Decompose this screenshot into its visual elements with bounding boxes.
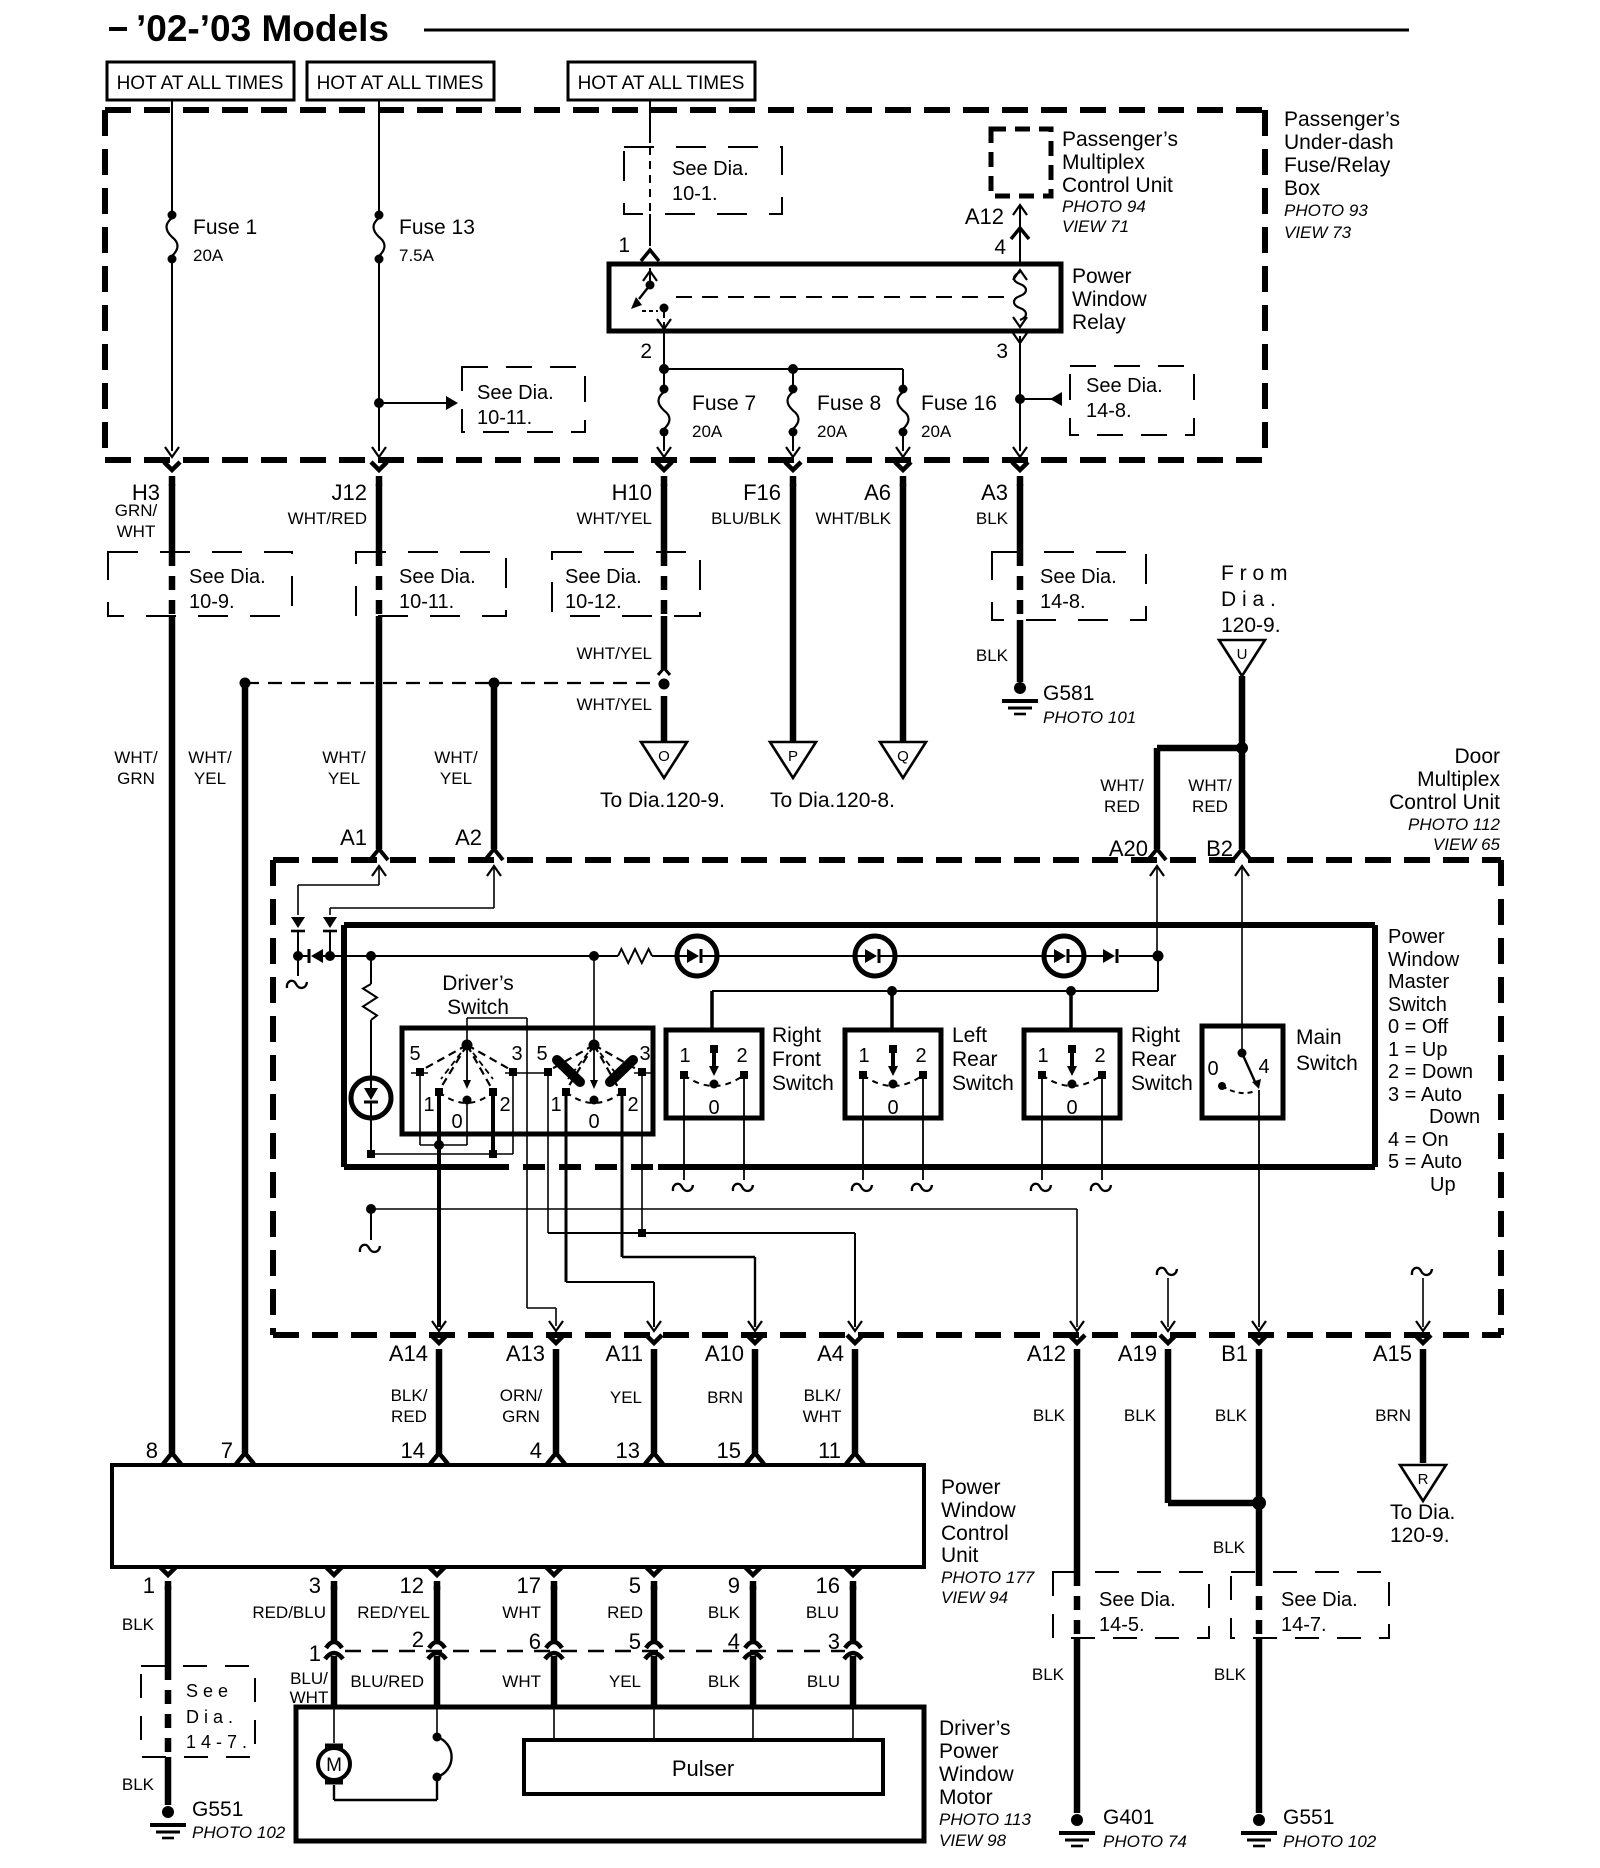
wire F7 to H10 (657, 436, 671, 457)
svg-text:Window: Window (1388, 949, 1460, 971)
relay A12 label (965, 204, 1004, 229)
inline connector 5 (645, 1586, 663, 1707)
LED2 (855, 936, 895, 976)
fuse F8 label (817, 392, 881, 441)
wire main switch to B1 (1258, 1090, 1260, 1327)
relay mid dashed line (676, 296, 1012, 298)
connector R triangle (1400, 1465, 1446, 1501)
see dia 10-12 box (552, 552, 700, 616)
see dia 14-7 box right (1231, 1572, 1389, 1638)
row2 pin label 2 (412, 1627, 424, 1652)
wire color WHT/RED B2 (1188, 776, 1232, 816)
svg-text:A1: A1 (340, 825, 367, 850)
control unit pin 5 (646, 1567, 662, 1590)
svg-text:G401: G401 (1103, 1806, 1154, 1829)
node line L2 to A4 (548, 1233, 855, 1327)
rotary1 contact 1 (435, 1088, 443, 1096)
svg-text:G551: G551 (1283, 1806, 1334, 1829)
fuse F1 label (193, 216, 257, 265)
svg-text:A4: A4 (817, 1341, 844, 1366)
svg-text:Left: Left (952, 1024, 987, 1047)
svg-text:GRN: GRN (502, 1407, 540, 1426)
rotary1 labels (409, 1043, 522, 1133)
main switch label (1296, 1026, 1358, 1075)
pulser box (524, 1740, 883, 1794)
svg-text:14-8.: 14-8. (1040, 591, 1086, 613)
svg-text:7.5A: 7.5A (399, 246, 435, 265)
rotary2 contact 0 (590, 1096, 599, 1105)
power window master switch box (344, 925, 1375, 1167)
svg-text:2: 2 (736, 1045, 747, 1067)
wire color WHT/YEL A1 (322, 748, 366, 788)
svg-text:Fuse 16: Fuse 16 (921, 392, 997, 415)
door multiplex control unit text (1389, 745, 1500, 854)
control unit pin 1 (160, 1567, 176, 1590)
A2 label (455, 825, 482, 850)
svg-text:14: 14 (401, 1438, 425, 1463)
wire R1 to node (370, 1118, 372, 1152)
svg-text:2: 2 (1094, 1045, 1105, 1067)
fuse F7 (659, 369, 670, 437)
main switch contact (1238, 1049, 1262, 1090)
pulser wires (554, 1707, 853, 1740)
rotary2 pivot (589, 1040, 600, 1051)
diode D2 (323, 917, 337, 931)
wire LED chain to switches (712, 956, 1158, 991)
rotary1 common link (420, 1144, 467, 1146)
title dash (109, 27, 127, 31)
svg-text:BLK: BLK (708, 1672, 741, 1691)
wire A12 lower (1074, 1638, 1081, 1813)
svg-text:P: P (788, 748, 798, 765)
wire H10 upper (661, 484, 668, 552)
G581 label (1043, 682, 1136, 727)
wire 13 to control unit (645, 1349, 663, 1464)
connector A15 (1373, 1321, 1431, 1366)
switch box RightRear (1024, 1030, 1120, 1118)
connector A10 (705, 1321, 763, 1366)
switch RightFront input contact (709, 1045, 719, 1089)
switch LeftRear wire 1 (852, 1079, 872, 1191)
power window relay box (609, 264, 1061, 331)
row2 pin label 6 (529, 1629, 541, 1654)
to dia 120-8 text (770, 789, 895, 812)
wire color YEL (610, 1388, 642, 1407)
diode D3 on bus (298, 949, 330, 963)
connector A6 (864, 462, 911, 505)
svg-text:RED: RED (1104, 797, 1140, 816)
switch RightRear wire 2 (1091, 1079, 1111, 1191)
junction A19-B1 (1252, 1496, 1266, 1510)
svg-text:Driver’s: Driver’s (939, 1717, 1011, 1740)
wire hot3 dashed through box (649, 147, 651, 246)
connector U triangle (1219, 640, 1265, 676)
control unit pin 12 (429, 1567, 445, 1590)
wire fuse1 to H3 (165, 263, 179, 457)
row2 dashed line (345, 1650, 845, 1652)
wire RR input (1069, 991, 1073, 1030)
svg-text:G581: G581 (1043, 682, 1094, 705)
wire B1 dashed (1256, 1572, 1263, 1638)
svg-text:F r o m: F r o m (1221, 562, 1288, 585)
ground G581 (1002, 682, 1038, 714)
rotary1 rays (422, 1045, 511, 1089)
pin label 12 bottom (400, 1573, 424, 1598)
svg-text:PHOTO 102: PHOTO 102 (192, 1823, 286, 1842)
connector B1 (1221, 1321, 1267, 1366)
wire color WHT/YEL H10 lower (576, 695, 652, 714)
main switch labels (1207, 1056, 1269, 1080)
svg-text:WHT/: WHT/ (114, 748, 158, 767)
main switch arc (1222, 1086, 1255, 1093)
svg-text:Passenger’s: Passenger’s (1062, 128, 1178, 151)
wire fuse13 feed (378, 100, 380, 211)
svg-text:YEL: YEL (609, 1672, 641, 1691)
svg-text:See Dia.: See Dia. (1040, 566, 1117, 588)
bus LED2-LED3 (895, 955, 1044, 957)
wire color BLU/BLK (F16) (711, 509, 782, 528)
svg-text:To Dia.120-9.: To Dia.120-9. (600, 789, 725, 812)
svg-text:BLK: BLK (976, 509, 1009, 528)
svg-text:11: 11 (818, 1438, 841, 1463)
svg-text:14-7.: 14-7. (1281, 1614, 1327, 1636)
svg-text:0: 0 (588, 1111, 599, 1133)
svg-text:13: 13 (616, 1438, 640, 1463)
junction dot col2 (240, 678, 251, 689)
svg-text:A11: A11 (605, 1341, 643, 1366)
power window relay text (1072, 265, 1148, 334)
svg-text:A12: A12 (965, 204, 1004, 229)
svg-text:BLU/RED: BLU/RED (350, 1672, 424, 1691)
svg-text:WHT: WHT (502, 1672, 541, 1691)
svg-text:10-9.: 10-9. (189, 591, 235, 613)
svg-text:1: 1 (143, 1573, 155, 1598)
wire color BLK B1 bottom (1214, 1665, 1247, 1684)
svg-text:F16: F16 (743, 480, 781, 505)
svg-text:See Dia.: See Dia. (672, 158, 749, 180)
connector A19 (1118, 1321, 1176, 1366)
svg-text:10-12.: 10-12. (565, 591, 622, 613)
wire RF input (710, 991, 714, 1030)
ground G401 (1059, 1814, 1095, 1846)
pin label 1 bottom (143, 1573, 155, 1598)
fuse F7 label (692, 392, 756, 441)
svg-text:BRN: BRN (707, 1388, 743, 1407)
wire color BLK B1 lower (1213, 1538, 1246, 1557)
wire color BLU pin16 (806, 1603, 839, 1622)
svg-text:5: 5 (629, 1629, 641, 1654)
driver's switch linkage (467, 1018, 556, 1326)
svg-text:A10: A10 (705, 1341, 744, 1366)
svg-text:Switch: Switch (447, 996, 509, 1019)
connector J12 (332, 462, 387, 505)
svg-text:BLK: BLK (122, 1775, 155, 1794)
svg-text:0: 0 (1066, 1097, 1077, 1119)
wire 15 to control unit (746, 1349, 764, 1464)
svg-text:PHOTO 113: PHOTO 113 (939, 1810, 1032, 1829)
switch LeftRear contact 1 (859, 1071, 867, 1079)
svg-text:Motor: Motor (939, 1786, 993, 1809)
svg-text:A14: A14 (389, 1341, 428, 1366)
svg-text:0: 0 (1207, 1058, 1218, 1080)
wire pin1 left (165, 1586, 172, 1666)
node dashed bus y683 (245, 682, 659, 684)
wire A3 to ground (1017, 620, 1024, 682)
svg-text:HOT AT ALL TIMES: HOT AT ALL TIMES (578, 73, 745, 94)
svg-text:5: 5 (536, 1043, 547, 1065)
pin label 7 (221, 1438, 233, 1463)
row2 pin label 1 (309, 1641, 321, 1666)
svg-text:3: 3 (996, 340, 1008, 363)
rotary1 contact 5 (416, 1068, 424, 1076)
svg-text:YEL: YEL (440, 769, 472, 788)
wire color YEL row2 (609, 1672, 641, 1691)
svg-text:BLU/BLK: BLU/BLK (711, 509, 782, 528)
svg-text:3: 3 (309, 1573, 321, 1598)
svg-text:0: 0 (887, 1097, 898, 1119)
svg-text:Fuse 1: Fuse 1 (193, 216, 257, 239)
switch RightRear contact 2 (1098, 1071, 1106, 1079)
fuse F16 label (921, 392, 997, 441)
svg-text:Box: Box (1284, 177, 1321, 200)
wire relay pin2 to fuses (659, 334, 903, 374)
wire color WHT/GRN (114, 748, 158, 788)
arrow A1 into box (372, 866, 386, 885)
svg-text:0: 0 (708, 1097, 719, 1119)
svg-text:H10: H10 (612, 480, 652, 505)
svg-text:Power: Power (939, 1740, 999, 1763)
bus LED1-LED2 (717, 955, 855, 957)
svg-text:To Dia.: To Dia. (1390, 1501, 1455, 1524)
svg-text:RED: RED (1192, 797, 1228, 816)
svg-text:Power: Power (1388, 926, 1445, 948)
wire LR input (890, 991, 894, 1030)
svg-text:PHOTO 93: PHOTO 93 (1284, 201, 1368, 220)
svg-text:16: 16 (816, 1573, 840, 1598)
wire A3 through box (1017, 552, 1024, 620)
wire D1 to bus (297, 931, 299, 956)
wire A20 into box (1150, 866, 1164, 956)
wire color BLK/WHT (803, 1386, 842, 1426)
wire color BLK A12 (1033, 1406, 1066, 1425)
svg-text:Unit: Unit (941, 1544, 979, 1567)
relay pin 4 label (994, 236, 1006, 259)
wire color WHT/YEL (H10) (576, 509, 652, 528)
svg-text:BLK: BLK (122, 1615, 155, 1634)
wire color BLK B1 (1215, 1406, 1248, 1425)
svg-text:G551: G551 (192, 1798, 243, 1821)
switch RightFront contact 1 (680, 1071, 688, 1079)
svg-text:Under-dash: Under-dash (1284, 131, 1394, 154)
pin label 17 bottom (517, 1573, 541, 1598)
svg-text:BLK: BLK (1213, 1538, 1246, 1557)
switch LeftRear wire 2 (912, 1079, 932, 1191)
svg-text:Right: Right (1131, 1024, 1180, 1047)
connector A11 (605, 1321, 662, 1366)
svg-text:2: 2 (499, 1094, 510, 1116)
svg-text:Pulser: Pulser (672, 1756, 734, 1781)
svg-text:5: 5 (409, 1043, 420, 1065)
rotary2 arc (566, 1092, 622, 1103)
arrow A2 into box (487, 866, 501, 908)
switch LeftRear contact 2 (919, 1071, 927, 1079)
control unit pin 16 (845, 1567, 861, 1590)
svg-text:BLU/: BLU/ (290, 1669, 328, 1688)
svg-text:RED: RED (607, 1603, 643, 1622)
fuse F16 (898, 369, 909, 437)
svg-text:J12: J12 (332, 480, 367, 505)
svg-text:BLK/: BLK/ (391, 1386, 428, 1405)
svg-text:A13: A13 (506, 1341, 545, 1366)
svg-text:Switch: Switch (1296, 1052, 1358, 1075)
wire color GRN/WHT (115, 501, 158, 541)
row2 pin label 5 (629, 1629, 641, 1654)
wire D2 to bus (329, 931, 331, 956)
junction dot U (1236, 742, 1248, 754)
svg-text:BRN: BRN (1375, 1406, 1411, 1425)
svg-text:YEL: YEL (610, 1388, 642, 1407)
wire H3 upper (169, 484, 176, 552)
svg-text:5: 5 (629, 1573, 641, 1598)
wire color BLK pin1 (122, 1615, 155, 1634)
wire color WHT row2 (502, 1672, 541, 1691)
rotary1 contact 0 (463, 1096, 472, 1105)
svg-text:A15: A15 (1373, 1341, 1412, 1366)
svg-text:20A: 20A (921, 422, 952, 441)
B2 label (1206, 836, 1233, 861)
svg-text:WHT/: WHT/ (188, 748, 232, 767)
rotary2 wire 2 to A10 (622, 1096, 755, 1327)
motor M (318, 1707, 350, 1782)
wire relay pin3 to A3 (1013, 333, 1027, 457)
rotary2 wire 5 (547, 1076, 549, 1233)
title text (136, 8, 389, 49)
svg-text:VIEW 98: VIEW 98 (939, 1831, 1007, 1850)
svg-text:1: 1 (423, 1094, 434, 1116)
wire J12 through box (376, 552, 383, 616)
connector A13 (506, 1321, 564, 1366)
svg-text:Control: Control (941, 1522, 1009, 1545)
ground G551 right (1241, 1814, 1277, 1846)
wire color WHT/RED A20 (1100, 776, 1144, 816)
svg-text:D i a .: D i a . (186, 1707, 233, 1727)
svg-text:BLK/: BLK/ (804, 1386, 841, 1405)
rotary2 wire 1 to A11 (566, 1096, 654, 1327)
switch RightFront wire 2 (733, 1079, 753, 1191)
svg-text:See Dia.: See Dia. (1086, 375, 1163, 397)
connector O triangle (641, 742, 687, 778)
svg-text:WHT: WHT (502, 1603, 541, 1622)
row2 pin label 3 (828, 1629, 840, 1654)
to dia 120-9 bottom text (1390, 1501, 1455, 1547)
svg-text:2: 2 (627, 1094, 638, 1116)
svg-text:Master: Master (1388, 971, 1449, 993)
svg-text:WHT/: WHT/ (322, 748, 366, 767)
svg-text:BLK: BLK (1124, 1406, 1157, 1425)
rotary link 3-5 (505, 1072, 547, 1074)
wire color RED/YEL (357, 1603, 430, 1622)
rotary2 wire 3 (638, 1076, 646, 1237)
svg-text:Passenger’s: Passenger’s (1284, 108, 1400, 131)
svg-text:2: 2 (412, 1627, 424, 1652)
svg-text:BLK: BLK (1214, 1665, 1247, 1684)
rotary1 down arrow (463, 1045, 471, 1089)
svg-text:WHT: WHT (117, 522, 156, 541)
svg-text:1: 1 (309, 1641, 321, 1666)
svg-text:Fuse 8: Fuse 8 (817, 392, 881, 415)
wire 14 to control unit (430, 1349, 448, 1464)
svg-text:1: 1 (550, 1094, 561, 1116)
svg-text:A12: A12 (1027, 1341, 1066, 1366)
wire B1 lower (1256, 1638, 1263, 1813)
svg-text:WHT/: WHT/ (434, 748, 478, 767)
bus segment (330, 955, 618, 957)
switch RightRear labels (1037, 1045, 1105, 1119)
svg-text:6: 6 (529, 1629, 541, 1654)
switch RightFront arc (684, 1075, 744, 1086)
arrow to see dia 14-8 top (1015, 392, 1062, 406)
rotary2 contact 5 (544, 1068, 552, 1076)
svg-text:RED: RED (391, 1407, 427, 1426)
svg-text:Multiplex: Multiplex (1062, 151, 1145, 174)
svg-text:Control Unit: Control Unit (1062, 174, 1173, 197)
bus junction left (293, 951, 303, 961)
rotary1 wire 0 (466, 1104, 468, 1145)
svg-text:Driver’s: Driver’s (442, 972, 514, 995)
resistor R1 (363, 956, 377, 1078)
switch label RightRear (1131, 1024, 1193, 1095)
node line L1 to A12 (366, 1204, 1077, 1327)
switch RightRear input contact (1067, 1045, 1077, 1089)
HOT AT ALL TIMES box 1 (107, 62, 294, 100)
svg-text:10-1.: 10-1. (672, 183, 718, 205)
relay pin 2 label (640, 340, 652, 363)
inline connector 4 (744, 1586, 762, 1707)
rotary2 contact 3 (638, 1068, 646, 1076)
G551 right label (1283, 1806, 1377, 1851)
see dia 10-9 box (108, 552, 292, 616)
fuse F13 (374, 211, 385, 264)
pin label 13 (616, 1438, 640, 1463)
svg-text:Relay: Relay (1072, 311, 1126, 334)
svg-text:5 = Auto: 5 = Auto (1388, 1151, 1462, 1173)
wire F16 down (790, 484, 797, 742)
switch RightFront wire 1 (673, 1079, 693, 1191)
svg-text:Main: Main (1296, 1026, 1342, 1049)
pin label 8 (146, 1438, 158, 1463)
wire pin1 lower (165, 1757, 172, 1805)
wire color BLK A3 lower (976, 646, 1009, 665)
junction dot A2 (489, 678, 500, 689)
see dia 10-1 box (624, 147, 782, 214)
wire H10 through box (661, 552, 668, 616)
driver power window motor box (296, 1707, 924, 1841)
see dia 14-5 box (1053, 1572, 1209, 1638)
svg-text:120-9.: 120-9. (1221, 614, 1281, 637)
svg-text:0 = Off: 0 = Off (1388, 1016, 1449, 1038)
rotary2 cam left (557, 1060, 580, 1082)
wire color BLK pin1 lower (122, 1775, 155, 1794)
bus junction resistor (366, 951, 376, 961)
svg-text:VIEW 71: VIEW 71 (1062, 217, 1129, 236)
wire color BLK pin9 (708, 1603, 741, 1622)
control unit pin 9 (745, 1567, 761, 1590)
pin label 9 bottom (728, 1573, 740, 1598)
wire hot3 down (649, 100, 651, 143)
svg-text:7: 7 (221, 1438, 233, 1463)
svg-text:HOT AT ALL TIMES: HOT AT ALL TIMES (317, 73, 484, 94)
svg-text:WHT/RED: WHT/RED (288, 509, 367, 528)
